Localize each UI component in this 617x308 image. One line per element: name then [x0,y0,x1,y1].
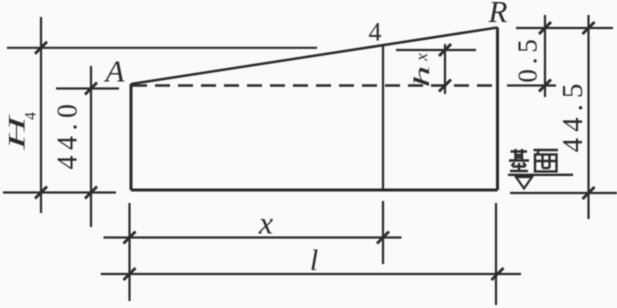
wire hx top extension line [396,49,476,51]
label jimian character mian (surface) [534,150,559,172]
svg-text:R: R [488,0,508,29]
svg-text:44.5: 44.5 [557,78,589,153]
svg-text:44.0: 44.0 [53,99,84,170]
svg-text:A: A [104,54,126,89]
arrow tick l left [124,268,136,280]
wire right edge of profile [496,28,499,191]
arrow tick x left [124,232,136,244]
dimension line 44.0 [90,66,92,227]
arrow tick hx top [439,44,451,56]
arrow tick 44.0 bottom [85,187,97,199]
svg-text:l: l [310,244,318,277]
wire extension line at A level for 44.0 [56,87,119,89]
wire section line at point 4 [382,44,384,190]
svg-text:4: 4 [23,112,40,120]
svg-text:h: h [409,66,434,88]
wire base extension line bottom right [510,192,617,194]
dimension line hx [444,44,446,94]
label jimian character ji (base) [509,149,529,171]
svg-text:x: x [412,53,431,62]
svg-text:4: 4 [369,18,382,47]
wire extension line at dashed level right [507,84,556,86]
wire sloped top line A to R [131,28,498,85]
dimension line H4 [40,17,42,213]
arrow tick H4 bottom [35,187,47,199]
arrow tick H4 top [35,42,47,54]
arrow tick hx bottom [439,80,451,92]
wire left edge of profile [130,84,133,190]
wire datum underline of jimian [508,174,573,176]
wire extension below base at left edge [128,203,130,301]
arrow tick 0.5 top [539,22,551,34]
wire base line of profile [131,189,498,192]
arrow tick x right [377,232,389,244]
dimension line x [104,236,402,238]
arrow tick 44.5 top [583,22,595,34]
dimension line 44.5 [587,15,589,219]
arrow tick 0.5 bottom [539,80,551,92]
arrow tick 44.0 top [85,83,97,95]
datum level triangle symbol [516,177,532,189]
wire base extension line bottom left [3,191,116,193]
dimension line l [101,273,521,275]
svg-text:0.5: 0.5 [513,34,543,82]
wire extension below base at right edge [495,203,497,305]
wire extension line at R level [516,27,613,29]
dimension line 0.5 [544,15,546,97]
svg-text:x: x [258,205,273,241]
arrow tick 44.5 bottom [583,187,595,199]
wire top extension line at level of point 4 [7,47,317,49]
arrow tick l right [492,268,504,280]
wire extension below base at section 4 [382,201,384,264]
wire dashed water level line at A [132,84,497,87]
